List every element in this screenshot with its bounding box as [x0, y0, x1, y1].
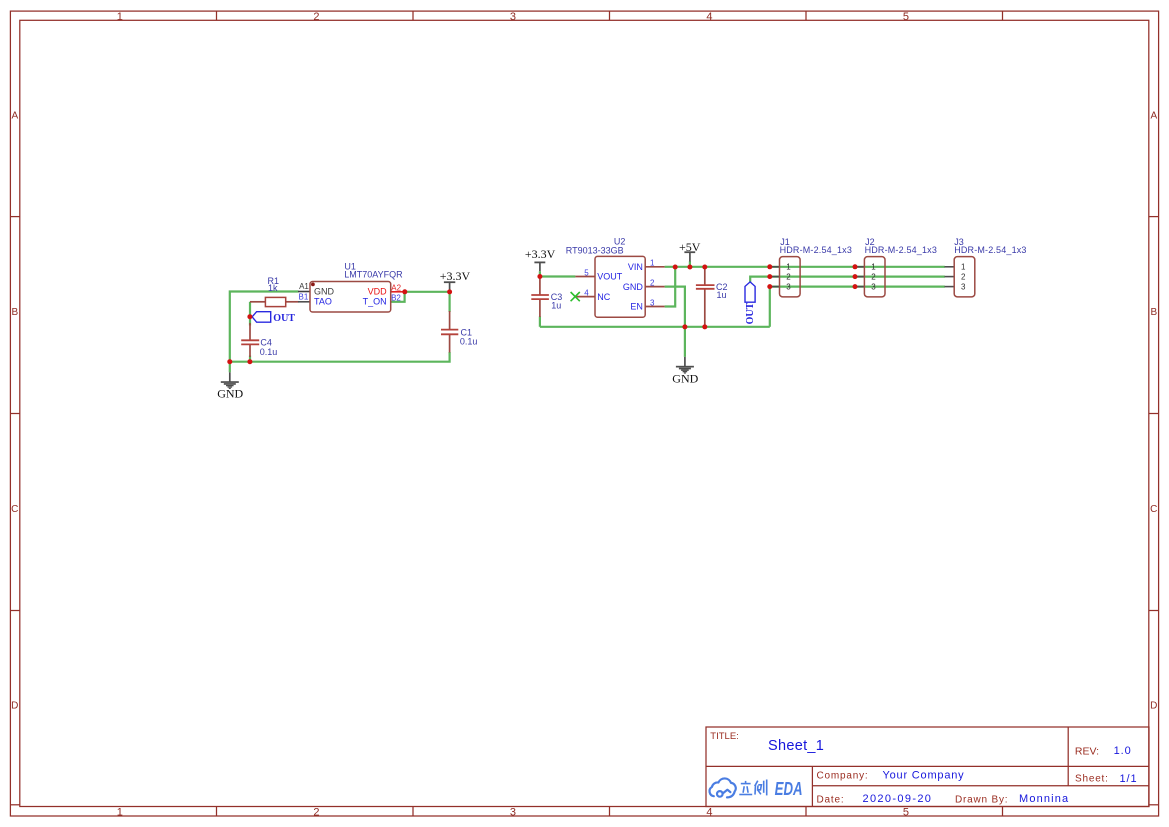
- svg-text:HDR-M-2.54_1x3: HDR-M-2.54_1x3: [954, 245, 1026, 255]
- svg-text:LMT70AYFQR: LMT70AYFQR: [344, 270, 403, 280]
- frame row letters left: [11, 111, 18, 712]
- svg-text:1: 1: [117, 11, 123, 23]
- net flag OUT: [252, 312, 271, 323]
- wire VOUT net: [540, 275, 576, 277]
- power flag +5V: [684, 252, 695, 261]
- junction dot C2 bottom: [702, 324, 707, 329]
- svg-text:GND: GND: [672, 372, 698, 386]
- op-amp U1 body: [310, 282, 391, 313]
- svg-text:1: 1: [871, 263, 876, 272]
- svg-text:1: 1: [786, 263, 791, 272]
- svg-text:A2: A2: [391, 284, 401, 293]
- svg-text:Monnina: Monnina: [1019, 793, 1069, 805]
- svg-text:5: 5: [903, 11, 909, 23]
- svg-text:VDD: VDD: [368, 287, 388, 297]
- frame row letters right: [1150, 111, 1157, 712]
- junction dot J1 pin3: [767, 284, 772, 289]
- svg-text:A1: A1: [299, 282, 309, 291]
- svg-text:GND: GND: [217, 386, 243, 400]
- resistor R1: [250, 297, 299, 306]
- svg-text:+3.3V: +3.3V: [440, 269, 471, 283]
- capacitor C1: [441, 311, 458, 353]
- svg-text:3: 3: [961, 283, 966, 292]
- svg-text:1/1: 1/1: [1120, 773, 1138, 785]
- svg-text:1k: 1k: [268, 283, 278, 293]
- svg-text:3: 3: [786, 283, 791, 292]
- frame column numbers bottom: [117, 806, 909, 818]
- svg-text:C: C: [1150, 504, 1157, 515]
- wire VIN net row1: [665, 266, 945, 268]
- wire C4 bottom: [249, 356, 251, 362]
- U1 origin dot: [311, 283, 315, 287]
- junction dot bottom-left: [227, 359, 232, 364]
- U2 pin 4 line: [575, 296, 595, 298]
- svg-text:OUT: OUT: [273, 313, 295, 324]
- svg-text:2: 2: [313, 806, 319, 818]
- U1 pin A1 line: [298, 291, 310, 293]
- svg-text:B: B: [11, 307, 18, 318]
- wire B2 loop: [391, 292, 405, 302]
- capacitor C4: [241, 323, 259, 357]
- svg-text:4: 4: [706, 806, 712, 818]
- svg-text:NC: NC: [597, 292, 610, 302]
- wire bottom rail (circuit 2): [540, 326, 770, 328]
- svg-text:1.0: 1.0: [1114, 745, 1132, 757]
- svg-text:1: 1: [117, 806, 123, 818]
- svg-text:GND: GND: [314, 287, 335, 297]
- svg-text:B: B: [1150, 307, 1157, 318]
- row ticks left: [10, 217, 19, 805]
- svg-text:EN: EN: [630, 302, 643, 312]
- svg-text:3: 3: [510, 11, 516, 23]
- svg-text:B1: B1: [299, 292, 309, 301]
- connector J1: [770, 257, 800, 297]
- wire GND stem green: [229, 362, 231, 373]
- wire EN riser: [665, 267, 676, 307]
- U1 pin B1 line: [298, 301, 310, 303]
- column ticks top: [217, 11, 1003, 20]
- svg-text:REV:: REV:: [1075, 746, 1099, 758]
- logo glyph 创: [755, 780, 767, 796]
- wire OUT row2: [750, 277, 945, 282]
- U2 pin 1 line: [645, 266, 664, 268]
- junction dot A2: [402, 289, 407, 294]
- svg-text:B2: B2: [391, 293, 401, 302]
- svg-text:2020-09-20: 2020-09-20: [863, 793, 933, 805]
- title block logo cell divider: [811, 766, 813, 806]
- U2 pin 5 line: [575, 276, 595, 278]
- junction dot C2 top: [702, 265, 707, 270]
- svg-text:TAO: TAO: [314, 297, 332, 307]
- svg-text:3: 3: [510, 806, 516, 818]
- junction dot J1 pin1: [767, 264, 772, 269]
- svg-text:2: 2: [650, 278, 655, 287]
- net flag OUT (vertical): [745, 282, 755, 302]
- junction dot +3.3V c1: [447, 289, 452, 294]
- svg-text:HDR-M-2.54_1x3: HDR-M-2.54_1x3: [865, 245, 937, 255]
- svg-text:0.1u: 0.1u: [460, 336, 478, 346]
- svg-text:RT9013-33GB: RT9013-33GB: [566, 245, 624, 255]
- wire R1 left to C4: [249, 302, 251, 326]
- title block outline: [706, 727, 1149, 807]
- junction dot VOUT: [537, 274, 542, 279]
- svg-text:VIN: VIN: [628, 262, 643, 272]
- svg-text:C: C: [11, 504, 18, 515]
- svg-text:TITLE:: TITLE:: [710, 731, 739, 742]
- frame column numbers top: [117, 11, 909, 23]
- wire C3 bottom to rail: [539, 316, 541, 326]
- svg-text:2: 2: [313, 11, 319, 23]
- svg-text:GND: GND: [623, 282, 644, 292]
- svg-text:OUT: OUT: [745, 302, 756, 324]
- svg-text:2: 2: [871, 273, 876, 282]
- junction dot EN-VIN: [673, 265, 678, 270]
- svg-text:D: D: [1150, 701, 1157, 712]
- svg-text:Company:: Company:: [817, 771, 869, 782]
- svg-text:EDA: EDA: [775, 779, 803, 799]
- wire left rail A1 net: [230, 292, 299, 362]
- logo EasyEDA cloud icon: [710, 778, 736, 797]
- svg-text:1: 1: [650, 259, 655, 268]
- junction dot J1 pin2: [767, 274, 772, 279]
- svg-text:Sheet_1: Sheet_1: [768, 738, 824, 754]
- row ticks right: [1149, 217, 1159, 805]
- U1 pin A2 line: [391, 291, 405, 293]
- title block row divider 1: [706, 765, 1149, 767]
- junction dot C4-bottom: [247, 359, 252, 364]
- svg-text:1: 1: [961, 263, 966, 272]
- title block REV cell divider: [1067, 727, 1069, 786]
- wire row3: [770, 286, 945, 288]
- column ticks bottom: [217, 807, 1003, 817]
- svg-text:1u: 1u: [551, 301, 561, 311]
- svg-text:Your Company: Your Company: [883, 770, 965, 782]
- svg-text:HDR-M-2.54_1x3: HDR-M-2.54_1x3: [780, 245, 852, 255]
- svg-text:Drawn By:: Drawn By:: [955, 795, 1008, 806]
- wire A2 to +3.3V: [405, 291, 450, 293]
- no-connect X on pin 4: [571, 292, 580, 301]
- svg-text:VOUT: VOUT: [597, 272, 623, 282]
- svg-text:2: 2: [961, 273, 966, 282]
- svg-text:Date:: Date:: [817, 795, 845, 806]
- svg-text:3: 3: [871, 283, 876, 292]
- capacitor C2: [696, 267, 715, 327]
- wire C1 top: [449, 292, 451, 312]
- svg-text:D: D: [11, 701, 18, 712]
- svg-text:T_ON: T_ON: [363, 297, 387, 307]
- title block row divider 2: [812, 785, 1149, 787]
- wire row3 riser to rail: [769, 287, 771, 327]
- U2 pin 2 line: [645, 286, 664, 288]
- svg-text:+5V: +5V: [679, 240, 701, 254]
- svg-text:4: 4: [584, 288, 589, 297]
- wire +5V stub: [689, 261, 691, 267]
- svg-text:A: A: [1150, 111, 1157, 122]
- capacitor C3: [531, 277, 549, 318]
- ground symbol GND (circuit 1): [221, 372, 239, 389]
- junction dot OUT: [247, 314, 252, 319]
- svg-text:C4: C4: [260, 337, 272, 347]
- junction dot J2 pin1: [853, 264, 858, 269]
- wire GND drop: [665, 287, 685, 357]
- regulator U2 body: [595, 256, 645, 317]
- svg-text:A: A: [11, 111, 18, 122]
- connector J3: [945, 257, 975, 297]
- junction dot J2 pin3: [853, 284, 858, 289]
- svg-text:5: 5: [903, 806, 909, 818]
- power flag +3.3V (circuit 1): [444, 282, 455, 292]
- svg-text:0.1u: 0.1u: [260, 347, 278, 357]
- junction dot J2 pin2: [853, 274, 858, 279]
- ground symbol GND (circuit 2): [676, 357, 694, 374]
- junction dot +5V: [687, 265, 692, 270]
- logo glyph 立: [739, 781, 752, 795]
- svg-text:Sheet:: Sheet:: [1075, 773, 1109, 784]
- wire bottom rail to C1: [230, 352, 450, 362]
- svg-text:2: 2: [786, 273, 791, 282]
- svg-text:5: 5: [584, 268, 589, 277]
- svg-text:3: 3: [650, 298, 655, 307]
- U2 pin 3 line: [645, 306, 664, 308]
- svg-text:1u: 1u: [717, 290, 727, 300]
- connector J2: [855, 257, 885, 297]
- svg-text:+3.3V: +3.3V: [525, 247, 556, 261]
- power flag +3.3V (circuit 2): [534, 262, 545, 276]
- junction dot GND rail: [682, 324, 687, 329]
- svg-text:4: 4: [706, 11, 712, 23]
